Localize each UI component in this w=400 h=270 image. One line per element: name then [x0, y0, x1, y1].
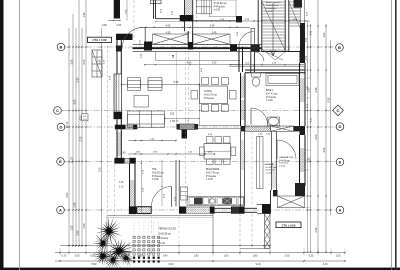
svg-text:0.30: 0.30	[117, 25, 122, 27]
svg-text:± 0.00: ± 0.00	[152, 178, 159, 181]
svg-text:7.05: 7.05	[99, 167, 102, 172]
svg-text:1.50: 1.50	[306, 37, 308, 42]
svg-text:8.30: 8.30	[328, 97, 331, 102]
svg-text:1.50: 1.50	[306, 55, 308, 60]
svg-text:± 0.00: ± 0.00	[159, 243, 166, 245]
svg-text:3.40: 3.40	[323, 263, 328, 266]
svg-text:4.60: 4.60	[187, 63, 192, 65]
svg-text:TERASA ACCES: TERASA ACCES	[159, 228, 177, 231]
svg-text:D: D	[60, 125, 63, 130]
svg-text:C: C	[337, 108, 340, 113]
svg-text:1.90: 1.90	[194, 254, 199, 257]
svg-text:4.35: 4.35	[315, 87, 318, 92]
svg-text:5.90: 5.90	[92, 263, 97, 266]
svg-text:2.05: 2.05	[336, 254, 341, 257]
svg-text:P=Gresie: P=Gresie	[266, 169, 276, 172]
svg-text:1.40: 1.40	[163, 254, 168, 257]
svg-text:2.60: 2.60	[310, 30, 312, 35]
svg-text:5.05: 5.05	[83, 59, 86, 64]
svg-text:2.50: 2.50	[70, 225, 73, 230]
svg-text:4.80: 4.80	[74, 99, 77, 104]
svg-text:3.00: 3.00	[315, 134, 318, 139]
svg-text:E: E	[339, 160, 342, 165]
svg-text:A: A	[59, 208, 62, 213]
svg-text:± 0.00: ± 0.00	[279, 165, 286, 167]
svg-text:1.70: 1.70	[170, 121, 175, 123]
svg-text:2.50: 2.50	[83, 223, 86, 228]
svg-text:A: A	[339, 208, 342, 213]
svg-text:± 0.00: ± 0.00	[266, 11, 273, 13]
svg-text:S=20.50 mp: S=20.50 mp	[159, 233, 172, 235]
svg-text:11.25: 11.25	[70, 156, 73, 163]
svg-text:1.80: 1.80	[253, 254, 258, 257]
svg-text:P=Gresie: P=Gresie	[279, 162, 289, 165]
svg-text:5: 5	[172, 55, 174, 59]
svg-text:2.30: 2.30	[77, 77, 80, 82]
svg-text:6.45: 6.45	[174, 81, 179, 84]
svg-text:Arbore aparent: Arbore aparent	[266, 1, 281, 4]
svg-text:1.20: 1.20	[308, 157, 311, 162]
svg-text:13.70: 13.70	[66, 121, 69, 128]
svg-text:2.05: 2.05	[170, 114, 175, 116]
svg-text:1.05: 1.05	[323, 32, 326, 37]
svg-text:P=Gresie: P=Gresie	[204, 97, 215, 100]
svg-text:± 0.00: ± 0.00	[214, 9, 221, 12]
svg-text:1.40: 1.40	[83, 12, 86, 17]
svg-text:2.10: 2.10	[80, 136, 83, 141]
svg-text:CTA ± 0.00: CTA ± 0.00	[282, 223, 296, 227]
svg-text:4.35: 4.35	[166, 31, 171, 34]
svg-text:0.75: 0.75	[62, 254, 67, 257]
svg-text:CAMERA TEH.: CAMERA TEH.	[279, 156, 294, 159]
svg-text:2.05: 2.05	[75, 254, 80, 257]
svg-text:S=3.46 mp: S=3.46 mp	[266, 167, 277, 169]
svg-text:E: E	[59, 159, 62, 164]
svg-text:1.45: 1.45	[119, 182, 124, 184]
svg-text:0.90: 0.90	[77, 230, 80, 235]
svg-text:3.45: 3.45	[212, 31, 217, 34]
svg-text:4.40: 4.40	[99, 59, 102, 64]
svg-text:2.05: 2.05	[285, 254, 290, 257]
svg-text:-0.90: -0.90	[102, 25, 108, 27]
svg-text:lambriu lemn: lambriu lemn	[266, 4, 279, 7]
svg-text:2.85: 2.85	[74, 202, 77, 207]
svg-text:1.60: 1.60	[212, 63, 217, 65]
svg-text:P=Gresie: P=Gresie	[159, 237, 169, 240]
svg-text:4.30: 4.30	[323, 147, 326, 152]
svg-text:S=6.66 mp: S=6.66 mp	[279, 160, 290, 162]
svg-text:B: B	[60, 45, 63, 50]
svg-text:± 0.00: ± 0.00	[266, 99, 273, 102]
svg-text:± 0.00: ± 0.00	[206, 178, 213, 181]
svg-text:5.90: 5.90	[66, 192, 69, 197]
svg-text:D: D	[339, 124, 342, 129]
svg-text:CAMARA: CAMARA	[264, 163, 274, 166]
svg-text:1.60: 1.60	[224, 254, 229, 257]
svg-text:B: B	[338, 45, 341, 50]
svg-text:9.10: 9.10	[256, 263, 261, 266]
svg-text:0.25: 0.25	[309, 254, 314, 257]
svg-text:CTA ± 0.00: CTA ± 0.00	[93, 38, 107, 42]
svg-text:3.95: 3.95	[70, 59, 73, 64]
svg-text:3.60: 3.60	[121, 153, 126, 155]
svg-text:1.10: 1.10	[119, 187, 124, 189]
svg-text:intrados pl.: intrados pl.	[266, 7, 277, 10]
svg-text:± 0.00: ± 0.00	[266, 172, 273, 174]
svg-text:8.40: 8.40	[169, 263, 174, 266]
svg-text:C: C	[56, 108, 59, 113]
svg-text:2.30: 2.30	[315, 227, 318, 232]
